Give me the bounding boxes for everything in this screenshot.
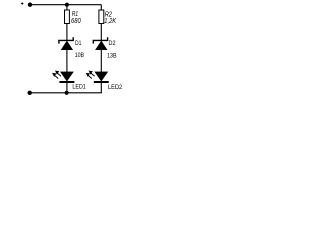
wire: LED2 cathode to bottom rail corner (30, 83, 102, 93)
wire: top rail corner down into R2 (100, 5, 102, 10)
svg-text:D1: D1 (75, 40, 82, 47)
svg-text:1,2K: 1,2K (104, 18, 116, 25)
wire: stub from top rail into R1 (66, 5, 68, 10)
svg-text:LED2: LED2 (108, 84, 123, 91)
value 1,2K (104, 18, 116, 25)
svg-text:680: 680 (71, 18, 81, 25)
svg-text:D2: D2 (109, 40, 116, 47)
wire: LED1 cathode to bottom rail (66, 83, 68, 93)
resistor R1 (65, 10, 70, 24)
node: positive terminal dot (28, 2, 32, 6)
label LED2 (108, 84, 123, 91)
value 13B (107, 52, 117, 59)
node: junction top rail / R1 (65, 3, 69, 7)
svg-text:10B: 10B (75, 52, 84, 59)
value 680 (71, 18, 81, 25)
label R1 (72, 11, 78, 18)
wire: R2 bottom to D2 cathode (100, 24, 102, 41)
zener diode D1 (59, 37, 73, 50)
LED LED1 (52, 71, 74, 82)
node: junction bottom rail / LED1 (65, 91, 69, 95)
LED LED2 (86, 71, 109, 82)
wire: R1 bottom to D1 cathode (66, 24, 68, 41)
label LED1 (72, 83, 86, 90)
value 10B (75, 52, 84, 59)
label D1 (75, 40, 82, 47)
plus terminal label (21, 2, 23, 4)
zener diode D2 (93, 37, 107, 50)
wire: top rail (30, 4, 101, 6)
svg-text:13B: 13B (107, 52, 117, 59)
wire: D1 anode to LED1 anode (66, 50, 68, 72)
wire: D2 anode to LED2 anode (100, 50, 102, 72)
label R2 (105, 11, 112, 18)
node: negative terminal dot (28, 91, 32, 95)
svg-text:LED1: LED1 (72, 83, 86, 90)
resistor R2 (99, 10, 104, 24)
label D2 (109, 40, 116, 47)
svg-text:R1: R1 (72, 11, 78, 18)
